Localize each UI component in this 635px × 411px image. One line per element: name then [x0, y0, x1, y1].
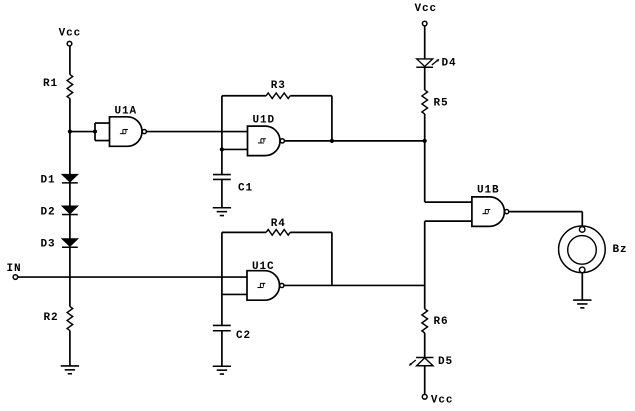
svg-text:R2: R2	[43, 312, 58, 324]
svg-text:R1: R1	[43, 78, 58, 90]
svg-text:R4: R4	[271, 218, 286, 230]
svg-text:Vcc: Vcc	[414, 3, 437, 15]
svg-text:R6: R6	[434, 316, 449, 328]
svg-text:U1B: U1B	[477, 185, 500, 197]
svg-text:R5: R5	[434, 97, 449, 109]
svg-text:C2: C2	[236, 330, 251, 342]
svg-text:D2: D2	[41, 206, 56, 218]
svg-text:D4: D4	[442, 57, 457, 69]
svg-text:D1: D1	[41, 174, 56, 186]
svg-text:R3: R3	[271, 80, 286, 92]
svg-text:D5: D5	[438, 356, 453, 368]
svg-text:U1A: U1A	[115, 106, 138, 118]
svg-text:U1C: U1C	[252, 261, 275, 273]
svg-text:Bz: Bz	[613, 244, 628, 256]
svg-text:D3: D3	[41, 239, 56, 251]
svg-text:U1D: U1D	[253, 115, 276, 127]
svg-text:C1: C1	[238, 183, 253, 195]
svg-text:Vcc: Vcc	[59, 28, 82, 40]
svg-text:IN: IN	[7, 263, 22, 275]
svg-text:Vcc: Vcc	[431, 394, 454, 406]
